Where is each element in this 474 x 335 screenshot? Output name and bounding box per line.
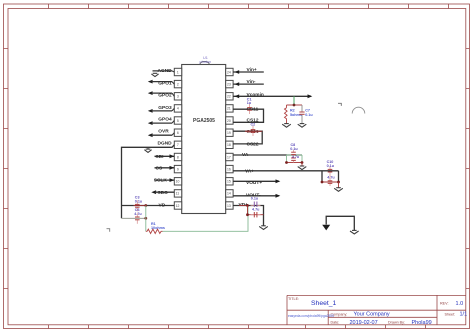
svg-text:10ohms: 10ohms <box>151 226 165 230</box>
wire red vertical VD+ to lower rail <box>247 206 249 215</box>
resistor R2 <box>285 105 302 124</box>
pin numbers 24-13 <box>227 70 231 208</box>
svg-text:4.7u: 4.7u <box>134 212 142 216</box>
svg-text:0.1u: 0.1u <box>290 147 298 151</box>
stray mark <box>107 229 110 232</box>
svg-text:19: 19 <box>227 131 231 135</box>
capacitor C6 <box>134 208 142 224</box>
wire VA- pin17 <box>233 154 302 156</box>
junction VD+ net <box>246 204 249 207</box>
svg-text:REV:: REV: <box>440 302 448 306</box>
port arrow GPO3 <box>148 108 175 112</box>
port arrow SDO <box>151 190 174 194</box>
svg-text:2: 2 <box>177 82 179 86</box>
svg-text:4.7u: 4.7u <box>252 207 260 211</box>
svg-text:CS: CS <box>156 165 163 171</box>
svg-text:17: 17 <box>227 155 231 159</box>
capacitor C2 <box>251 122 256 136</box>
wire DGND pin7 to left rail <box>122 145 175 219</box>
title block <box>287 295 466 324</box>
svg-text:5: 5 <box>177 119 179 123</box>
capacitor 4.7u inline on VD+ lower rail <box>251 207 261 217</box>
svg-text:GPO3: GPO3 <box>158 105 172 111</box>
stray arc <box>352 107 365 113</box>
junction on bottom rail <box>144 217 147 220</box>
svg-text:Sheet:: Sheet: <box>445 312 456 316</box>
svg-text:8: 8 <box>177 155 179 159</box>
port arrow GPO1 <box>148 80 175 84</box>
svg-text:4.7u: 4.7u <box>292 155 300 159</box>
svg-text:12: 12 <box>176 204 180 208</box>
svg-text:22: 22 <box>227 95 231 99</box>
svg-text:Phola99: Phola99 <box>412 320 432 326</box>
svg-text:23: 23 <box>227 82 231 86</box>
junction VD+ lower rail <box>246 213 249 216</box>
svg-text:13: 13 <box>227 204 231 208</box>
wire Vin+ pin24 <box>233 70 264 74</box>
wire red overlay on VD+ net <box>239 205 248 207</box>
svg-text:U1: U1 <box>203 56 208 60</box>
svg-text:DGND: DGND <box>158 141 173 147</box>
svg-text:14: 14 <box>227 192 231 196</box>
capacitor C1 <box>247 97 252 114</box>
junction on VD- net <box>144 204 147 207</box>
svg-text:18: 18 <box>227 143 231 147</box>
wire RC filter top rail <box>287 104 303 106</box>
ground below VA+ rail <box>334 182 343 191</box>
svg-text:0.1u: 0.1u <box>305 113 313 117</box>
ground below VA- rail <box>298 163 307 170</box>
svg-text:C2: C2 <box>251 122 256 126</box>
svg-text:7: 7 <box>177 143 179 147</box>
svg-text:AGND: AGND <box>158 68 173 74</box>
svg-text:0.1u: 0.1u <box>251 197 259 201</box>
wire VA+ pin16 <box>233 170 338 172</box>
wire green overlay on VA- segment <box>287 154 303 156</box>
junction VA- rail right <box>301 161 304 164</box>
ground below R2 <box>282 124 291 128</box>
svg-text:PGA2505: PGA2505 <box>193 118 215 124</box>
svg-text:0.1u: 0.1u <box>135 199 143 203</box>
wire VD+ lower rail <box>248 214 264 216</box>
svg-text:easyeda.com/phola99/pga2505: easyeda.com/phola99/pga2505 <box>288 314 334 318</box>
wire bottom rail to C6 junction <box>122 217 146 219</box>
svg-text:5ohms: 5ohms <box>290 113 302 117</box>
svg-text:SDI: SDI <box>156 154 165 160</box>
wire Vin- pin23 <box>233 82 264 86</box>
op-amp U1 PGA2505 IC body <box>182 61 226 213</box>
stray mark top <box>338 103 341 106</box>
port arrow SDI <box>155 154 175 158</box>
port arrow down on bridge left leg <box>322 225 330 231</box>
wire green stub Vcomin to RC filter <box>293 96 295 105</box>
svg-text:10: 10 <box>176 180 180 184</box>
wire green from R1 to VD+ net <box>163 206 249 232</box>
svg-text:R2: R2 <box>290 109 295 113</box>
pin boxes left pins 1-12 <box>174 68 181 209</box>
wire Vcomin pin22 with right arrow <box>233 94 312 98</box>
svg-text:Your Company: Your Company <box>354 312 390 318</box>
wire VA- decoupling bottom rail <box>287 162 303 164</box>
wire green vertical to R1 <box>145 206 147 232</box>
capacitor 4.7u on VA+ rail <box>327 175 335 186</box>
svg-text:VA-: VA- <box>242 152 250 158</box>
wire green drops VA- decoupling <box>287 155 303 163</box>
svg-text:CS22: CS22 <box>247 141 259 147</box>
svg-text:0.1u: 0.1u <box>327 164 335 168</box>
junction VA+ rail left <box>321 181 324 184</box>
port arrow GPO4 <box>148 121 175 126</box>
capacitor C10 <box>327 160 335 175</box>
svg-text:16: 16 <box>227 167 231 171</box>
svg-text:GPO4: GPO4 <box>158 117 172 123</box>
svg-text:VOUT+: VOUT+ <box>246 180 262 186</box>
svg-text:15: 15 <box>227 180 231 184</box>
svg-text:Sheet_1: Sheet_1 <box>311 300 337 307</box>
svg-text:GPO1: GPO1 <box>158 81 172 87</box>
resistor R1 <box>146 222 165 234</box>
pin boxes right pins 24-13 <box>226 68 233 209</box>
svg-text:6: 6 <box>177 131 179 135</box>
svg-text:1u: 1u <box>247 101 252 105</box>
ground below C7 <box>298 124 307 128</box>
port arrow SCLK <box>155 178 175 182</box>
svg-text:OVR: OVR <box>158 128 169 134</box>
svg-text:C7: C7 <box>305 109 310 113</box>
wire VD- pin12 <box>122 205 175 207</box>
ground flag on AGND <box>151 73 158 76</box>
svg-text:3: 3 <box>177 95 179 99</box>
wire drops VA+ decoupling <box>322 171 339 182</box>
junction VA+ rail right <box>337 181 340 184</box>
svg-text:TITLE:: TITLE: <box>288 297 299 301</box>
capacitor C5 4.7u <box>291 155 300 163</box>
wire VOUT- pin14 with arrow <box>233 194 280 198</box>
capacitor C3 <box>135 195 143 211</box>
svg-text:1/1: 1/1 <box>460 312 468 318</box>
port arrow GPO2 <box>148 91 175 96</box>
pin numbers 1-12 <box>176 70 180 208</box>
wire VOUT+ pin15 with arrow <box>233 179 280 183</box>
svg-text:SCLK: SCLK <box>154 177 168 183</box>
svg-text:11: 11 <box>176 192 180 196</box>
svg-text:Drawn By:: Drawn By: <box>388 321 405 325</box>
svg-text:VD-: VD- <box>159 202 168 208</box>
capacitor C7 <box>299 105 313 124</box>
svg-text:4: 4 <box>177 107 179 111</box>
wire CS21 to CS22 loop <box>233 131 262 144</box>
svg-text:SDO: SDO <box>158 190 169 196</box>
wire AGND pin1 <box>153 71 175 72</box>
svg-text:GPO2: GPO2 <box>158 93 172 99</box>
svg-text:21: 21 <box>227 107 231 111</box>
svg-text:photon: photon <box>200 60 212 64</box>
svg-text:1: 1 <box>177 70 179 74</box>
svg-text:2019-02-07: 2019-02-07 <box>350 320 378 326</box>
ground on bridge right leg <box>350 230 359 234</box>
port arrow OVR <box>148 133 175 137</box>
svg-text:Vin+: Vin+ <box>247 67 257 73</box>
wire CS11 to CS12 loop <box>233 109 263 122</box>
svg-text:Vin-: Vin- <box>247 79 256 85</box>
wire VD+ pin13 <box>233 206 263 227</box>
svg-text:4.7u: 4.7u <box>327 175 335 179</box>
svg-text:Date:: Date: <box>331 321 340 325</box>
wire floating gnd bridge <box>326 216 354 230</box>
junction on RC filter <box>293 104 296 107</box>
ground flag on DGND wire <box>144 147 151 152</box>
port arrow CS <box>155 166 175 170</box>
wire red overlay on VD- net <box>134 205 146 207</box>
junction VA- rail left <box>285 161 288 164</box>
capacitor C8 <box>290 143 298 157</box>
svg-text:1.0: 1.0 <box>456 301 464 307</box>
wire red overlay on CS21 segment <box>245 130 262 132</box>
svg-text:VA+: VA+ <box>245 168 254 174</box>
svg-text:24: 24 <box>227 70 231 74</box>
svg-text:20: 20 <box>227 119 231 123</box>
ground below VD+ branch <box>259 226 268 230</box>
svg-text:9: 9 <box>177 167 179 171</box>
wire VA+ decoupling bottom rail <box>322 181 339 183</box>
capacitor C4 inline on VD+ wire <box>251 197 261 207</box>
